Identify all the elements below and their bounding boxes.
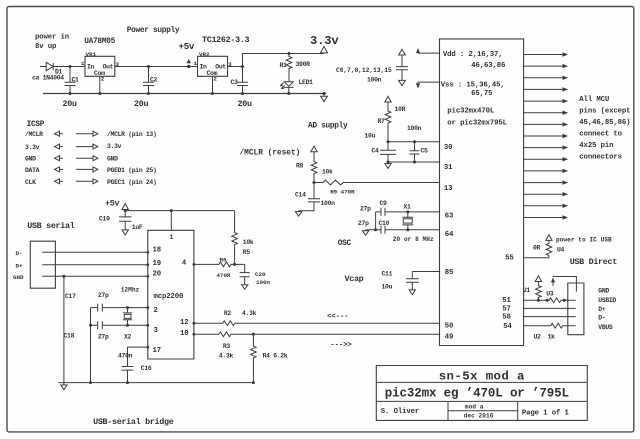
svg-text:R8: R8 xyxy=(296,163,304,170)
svg-text:U2 1k: U2 1k xyxy=(534,333,556,340)
wire D1 to VR1 xyxy=(53,66,85,68)
svg-text:power in: power in xyxy=(35,34,69,42)
svg-text:R1: R1 xyxy=(280,62,288,69)
svg-text:USBID: USBID xyxy=(598,297,616,304)
svg-text:2: 2 xyxy=(213,76,217,83)
svg-text:27p: 27p xyxy=(98,292,109,299)
node GND branch xyxy=(62,275,65,278)
svg-text:100n: 100n xyxy=(256,279,270,286)
svg-text:100n: 100n xyxy=(407,125,422,132)
svg-text:USB serial: USB serial xyxy=(27,221,75,231)
svg-text:10R: 10R xyxy=(395,106,406,113)
svg-text:TC1262-3.3: TC1262-3.3 xyxy=(202,35,250,45)
ground rail bottom xyxy=(58,382,253,384)
svg-text:U3: U3 xyxy=(546,290,554,297)
svg-text:8v up: 8v up xyxy=(35,43,57,51)
svg-text:connectors: connectors xyxy=(579,154,622,162)
ICSP row GND xyxy=(25,156,118,163)
resistor R5 10k xyxy=(232,211,238,265)
wire pin 10 to pin 49 with resistor R3 4.3k xyxy=(194,332,440,337)
wire pin 1 xyxy=(170,211,172,231)
wire GND to pin 20 xyxy=(42,275,148,277)
LED1 emission arrows xyxy=(281,83,285,88)
svg-text:4.3k: 4.3k xyxy=(219,353,234,360)
ground marker below C14 xyxy=(298,210,300,213)
svg-text:1: 1 xyxy=(194,60,198,67)
svg-text:+5v: +5v xyxy=(179,41,195,52)
node C3 top xyxy=(241,65,244,68)
svg-text:R7: R7 xyxy=(378,118,386,125)
wire pin 31 / ground return xyxy=(388,161,440,163)
wire pin 57 D+ xyxy=(524,307,576,309)
ICSP row DATA xyxy=(25,167,157,174)
svg-text:D+: D+ xyxy=(16,262,23,269)
wire caps left leg to ground xyxy=(90,308,92,383)
svg-text:10u: 10u xyxy=(382,284,393,291)
svg-text:20: 20 xyxy=(153,270,162,278)
capacitor C5 100n xyxy=(410,142,420,162)
svg-text:LED1: LED1 xyxy=(299,79,314,86)
svg-text:power to IC USB: power to IC USB xyxy=(556,237,612,244)
node +5v net xyxy=(187,65,190,68)
wire D- to pin 18 xyxy=(42,251,148,253)
svg-text:C1: C1 xyxy=(72,76,80,83)
node MCLR xyxy=(313,181,316,184)
svg-text:sn-5x mod a: sn-5x mod a xyxy=(439,369,525,383)
svg-text:ICSP: ICSP xyxy=(27,121,45,129)
svg-text:CLK: CLK xyxy=(25,179,36,186)
title block box xyxy=(376,366,587,421)
svg-text:R4 6.2k: R4 6.2k xyxy=(263,353,288,360)
ICSP row 3.3v xyxy=(25,143,122,151)
svg-text:or pic32mx795L: or pic32mx795L xyxy=(447,120,507,128)
svg-text:C17: C17 xyxy=(65,293,76,300)
svg-text:63: 63 xyxy=(445,212,454,220)
svg-text:mcp2200: mcp2200 xyxy=(154,293,184,301)
svg-text:C11: C11 xyxy=(382,271,393,278)
svg-text:UA78M05: UA78M05 xyxy=(84,38,115,46)
svg-text:C19: C19 xyxy=(99,215,110,222)
svg-text:470n: 470n xyxy=(118,352,133,359)
ICSP row /MCLR xyxy=(25,131,157,138)
svg-text:C10: C10 xyxy=(379,220,390,227)
capacitor C14 100n xyxy=(299,183,320,211)
wire pin 55 xyxy=(524,255,549,257)
wire 3.3v rail xyxy=(243,54,325,67)
ground marker below C4 xyxy=(387,162,389,164)
svg-text:pic32mx470L: pic32mx470L xyxy=(447,108,494,116)
svg-text:All MCU: All MCU xyxy=(579,96,609,104)
svg-text:/MCLR (pin 13): /MCLR (pin 13) xyxy=(107,131,157,138)
capacitor C16 470n xyxy=(122,367,134,383)
ground marker power rail end xyxy=(323,92,326,95)
wire pin 51 USBID with resistor U3 xyxy=(524,298,576,303)
wire pin 3 with capacitor C18 27p xyxy=(91,321,148,329)
svg-text:C2: C2 xyxy=(150,76,158,83)
resistor R8 10k pullup xyxy=(311,146,317,152)
svg-text:/MCLR: /MCLR xyxy=(25,131,43,138)
svg-text:R6: R6 xyxy=(220,256,227,263)
ground marker below C19 xyxy=(122,230,128,235)
resistor R7 10R xyxy=(385,96,391,102)
svg-text:C18: C18 xyxy=(64,332,75,339)
svg-text:Vcap: Vcap xyxy=(345,274,364,284)
svg-text:OSC: OSC xyxy=(338,240,352,248)
crystal X2 12MHz xyxy=(126,306,129,309)
svg-text:19: 19 xyxy=(153,260,162,268)
capacitor C19 1uF xyxy=(119,211,132,230)
svg-text:2: 2 xyxy=(101,76,105,83)
svg-text:S. Oliver: S. Oliver xyxy=(381,408,419,416)
svg-text:45,46,85,86): 45,46,85,86) xyxy=(579,119,630,127)
svg-text:R2: R2 xyxy=(224,310,232,317)
svg-text:55: 55 xyxy=(505,254,514,262)
svg-text:VBUS: VBUS xyxy=(598,324,613,331)
wire VR2 com to ground xyxy=(212,76,214,93)
wire pin 54 VBUS with resistor U2 1k xyxy=(524,323,576,328)
svg-text:13: 13 xyxy=(444,185,453,193)
wire pin 63 with capacitor C9 27p xyxy=(376,208,440,216)
svg-text:GND: GND xyxy=(107,156,118,163)
svg-text:D+: D+ xyxy=(598,306,606,313)
wire VR2 out xyxy=(228,66,243,68)
MCU right side connector arrows x15 xyxy=(524,52,568,219)
USB serial connector box xyxy=(30,241,55,288)
svg-text:51: 51 xyxy=(502,297,511,305)
MCU U5 pic32mx box xyxy=(440,39,524,346)
svg-text:pic32mx eg ’470L or ’795L: pic32mx eg ’470L or ’795L xyxy=(385,387,569,401)
svg-text:mod a: mod a xyxy=(465,403,484,410)
ground stub OSC xyxy=(366,230,376,231)
svg-text:31: 31 xyxy=(444,164,453,172)
svg-text:/MCLR (reset): /MCLR (reset) xyxy=(240,149,301,157)
svg-text:3.3v: 3.3v xyxy=(25,144,40,151)
svg-text:GND: GND xyxy=(13,274,24,281)
svg-text:65,75: 65,75 xyxy=(471,90,492,98)
svg-text:1uF: 1uF xyxy=(132,224,143,231)
svg-text:58: 58 xyxy=(502,314,511,322)
node 3.3v net marker xyxy=(321,46,328,53)
svg-text:PGED1 (pin 25): PGED1 (pin 25) xyxy=(107,167,157,174)
Vdd pin wire xyxy=(418,52,440,54)
svg-text:Power supply: Power supply xyxy=(127,27,180,35)
wire pin 2 with capacitor C17 27p xyxy=(91,304,148,312)
capacitor C4 10u xyxy=(380,142,396,162)
capacitor C20 100n xyxy=(240,264,250,284)
svg-text:R5: R5 xyxy=(243,249,251,256)
wire pin 17 to C16 xyxy=(128,347,148,366)
svg-text:USB Direct: USB Direct xyxy=(570,257,618,267)
svg-text:17: 17 xyxy=(153,347,162,355)
capacitor C6 bundle 100n xyxy=(399,49,406,55)
svg-text:4.3k: 4.3k xyxy=(242,310,257,317)
svg-text:12: 12 xyxy=(180,319,189,327)
Vss net arrow xyxy=(416,83,420,88)
svg-text:100n: 100n xyxy=(321,200,336,207)
svg-text:Vss : 15,36,45,: Vss : 15,36,45, xyxy=(441,81,505,89)
svg-text:390R: 390R xyxy=(296,61,311,68)
svg-text:pins (except: pins (except xyxy=(579,108,630,116)
svg-text:C6,7,8,12,13,15: C6,7,8,12,13,15 xyxy=(336,67,392,74)
svg-text:R3: R3 xyxy=(223,343,231,350)
svg-text:10k: 10k xyxy=(243,239,254,246)
svg-text:10: 10 xyxy=(180,330,189,338)
svg-text:Page 1 of 1: Page 1 of 1 xyxy=(522,409,570,417)
mcp2200 U6 box xyxy=(148,230,194,359)
ground marker below C20 xyxy=(242,285,248,290)
svg-text:20 or 8 MHz: 20 or 8 MHz xyxy=(393,236,434,243)
wire pin 12 to pin 50 with resistor R2 4.3k xyxy=(194,321,440,326)
wire input xyxy=(40,66,46,68)
crystal X1 xyxy=(406,210,409,213)
svg-text:20u: 20u xyxy=(63,99,77,109)
svg-text:C14: C14 xyxy=(295,191,306,198)
svg-text:GND: GND xyxy=(25,156,36,163)
svg-text:C3: C3 xyxy=(231,79,239,86)
capacitor C11 10u xyxy=(406,272,419,290)
Vdd net arrow xyxy=(416,48,420,53)
node R1 top xyxy=(288,52,291,55)
svg-text:<<---: <<--- xyxy=(327,313,348,321)
ground marker rail left end xyxy=(63,383,65,385)
node C1 bottom xyxy=(69,92,72,95)
wire VR1 com to ground xyxy=(99,76,101,93)
wire pin 64 with capacitor C10 27p xyxy=(376,226,440,234)
svg-text:ca 1N4004: ca 1N4004 xyxy=(32,75,64,82)
+5v marker arrow xyxy=(186,59,191,67)
svg-text:18: 18 xyxy=(153,247,162,255)
resistor U4 0R xyxy=(546,240,552,255)
resistor R4 6.2k xyxy=(251,334,257,382)
svg-text:85: 85 xyxy=(445,269,454,277)
svg-text:--->>: --->> xyxy=(330,342,352,350)
capacitor C2 20u xyxy=(143,67,154,94)
svg-text:27p: 27p xyxy=(98,333,109,340)
svg-text:27p: 27p xyxy=(358,220,369,227)
wire pin 4 with resistor R6 470R xyxy=(194,262,245,267)
GND jumper wire to connector xyxy=(553,277,576,292)
svg-text:VR1: VR1 xyxy=(86,51,97,58)
svg-text:PGEC1 (pin 24): PGEC1 (pin 24) xyxy=(107,179,157,186)
svg-text:C16: C16 xyxy=(141,365,152,372)
svg-text:3.3v: 3.3v xyxy=(107,143,122,150)
svg-text:20u: 20u xyxy=(134,99,148,109)
svg-text:connect to: connect to xyxy=(579,131,622,139)
svg-text:C20: C20 xyxy=(255,271,266,278)
svg-text:X1: X1 xyxy=(404,204,412,211)
ICSP row CLK xyxy=(25,179,157,186)
svg-text:dec 2016: dec 2016 xyxy=(464,412,494,419)
svg-text:12Mhz: 12Mhz xyxy=(121,287,140,294)
svg-text:+5v: +5v xyxy=(105,199,119,209)
svg-text:27p: 27p xyxy=(360,206,371,213)
svg-text:49: 49 xyxy=(445,334,454,342)
svg-text:C4: C4 xyxy=(372,147,380,154)
svg-text:3.3v: 3.3v xyxy=(310,34,339,48)
wire GND down to rail xyxy=(63,276,65,382)
node junction C1 top xyxy=(69,65,72,68)
svg-text:C9: C9 xyxy=(380,200,388,207)
wire C9 left leg down xyxy=(375,212,377,230)
svg-text:Vdd : 2,16,37,: Vdd : 2,16,37, xyxy=(443,51,503,59)
diode D1 xyxy=(46,62,53,70)
svg-text:AD supply: AD supply xyxy=(308,122,348,130)
svg-text:C5: C5 xyxy=(421,147,429,154)
capacitor C3 20u xyxy=(237,67,248,94)
svg-text:10k: 10k xyxy=(322,169,333,176)
svg-text:DATA: DATA xyxy=(25,167,40,174)
capacitor C1 20u xyxy=(65,67,76,94)
+5v rail marker arrow xyxy=(122,204,128,210)
svg-text:R9 470R: R9 470R xyxy=(330,188,355,195)
svg-text:U1: U1 xyxy=(523,287,531,294)
svg-text:3: 3 xyxy=(154,327,159,335)
resistor U1 pullup xyxy=(535,276,541,282)
svg-text:4: 4 xyxy=(182,260,187,268)
svg-text:2: 2 xyxy=(154,307,158,315)
svg-text:X2: X2 xyxy=(124,333,132,340)
LED LED1 xyxy=(284,82,293,87)
svg-text:1: 1 xyxy=(81,60,85,67)
wire pin 85 xyxy=(412,271,439,273)
node R5/R6/C20 xyxy=(233,263,236,266)
svg-text:30: 30 xyxy=(444,144,453,152)
wire D+ to pin 19 xyxy=(42,264,148,266)
node R4 top xyxy=(252,333,255,336)
USB Direct connector box xyxy=(568,283,584,335)
svg-text:1: 1 xyxy=(170,234,174,241)
wire pin 30 xyxy=(388,141,440,143)
ground rail power section xyxy=(43,93,326,95)
svg-text:D-: D- xyxy=(598,315,605,322)
svg-text:470R: 470R xyxy=(217,272,231,279)
svg-text:57: 57 xyxy=(502,305,511,313)
svg-text:100n: 100n xyxy=(367,76,382,83)
svg-text:USB-serial bridge: USB-serial bridge xyxy=(93,417,174,427)
resistor R1 390R xyxy=(286,54,292,76)
svg-text:50: 50 xyxy=(445,322,454,330)
svg-text:0R: 0R xyxy=(533,244,541,251)
wire pin 58 D- xyxy=(524,316,576,318)
svg-text:64: 64 xyxy=(445,231,454,239)
svg-text:54: 54 xyxy=(503,323,512,331)
GND net arrow xyxy=(551,278,555,283)
svg-text:4x25 pin: 4x25 pin xyxy=(579,142,613,150)
wire VR1 out to VR2 in xyxy=(115,66,198,68)
svg-text:D-: D- xyxy=(16,250,23,257)
svg-text:20u: 20u xyxy=(238,99,252,109)
resistor R9 470R / wire pin 13 xyxy=(314,180,440,185)
svg-text:GND: GND xyxy=(598,288,609,295)
node C2 top xyxy=(147,65,150,68)
ground marker below C11 xyxy=(409,290,415,295)
svg-text:46,63,86: 46,63,86 xyxy=(471,62,505,70)
+5v rail wire xyxy=(125,210,234,212)
svg-text:10u: 10u xyxy=(365,133,376,140)
Vss pin wire xyxy=(418,81,440,83)
svg-text:U4: U4 xyxy=(557,246,565,253)
